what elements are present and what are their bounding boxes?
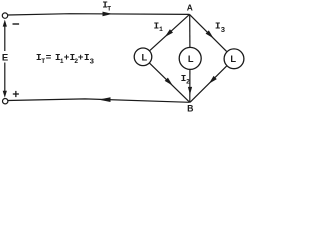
- wire L1 to node B: [150, 63, 190, 102]
- svg-text:L: L: [188, 54, 194, 64]
- arrow I1: [165, 29, 173, 37]
- arrow I3: [206, 30, 214, 38]
- negative terminal: [2, 13, 7, 18]
- lamp L1: [134, 48, 152, 66]
- wire L2 to node B: [189, 70, 191, 103]
- lamp L2: [179, 47, 201, 69]
- wire top: negative terminal to node A: [8, 14, 190, 15]
- svg-text:L: L: [230, 54, 236, 64]
- wire A to lamp L2: [189, 14, 191, 47]
- svg-text:A: A: [187, 2, 193, 12]
- arrow I2: [188, 87, 192, 95]
- minus sign: [13, 23, 20, 25]
- svg-text:L: L: [141, 53, 147, 63]
- svg-text:B: B: [187, 104, 193, 114]
- voltage arrow E up: [3, 20, 7, 51]
- wire L3 to node B: [190, 66, 227, 102]
- wire A to lamp L3: [190, 14, 227, 51]
- wire A to lamp L1: [150, 14, 190, 50]
- arrow on L1-B wire: [165, 78, 173, 86]
- plus sign: [13, 91, 19, 97]
- arrow IT: [103, 12, 113, 17]
- svg-text:E: E: [2, 52, 8, 63]
- positive terminal: [2, 99, 7, 104]
- voltage arrow E down: [3, 63, 7, 98]
- arrow on L3-B wire: [209, 76, 217, 84]
- wire bottom: node B to positive terminal: [8, 99, 190, 102]
- lamp L3: [224, 49, 244, 69]
- arrow on bottom wire: [99, 97, 111, 102]
